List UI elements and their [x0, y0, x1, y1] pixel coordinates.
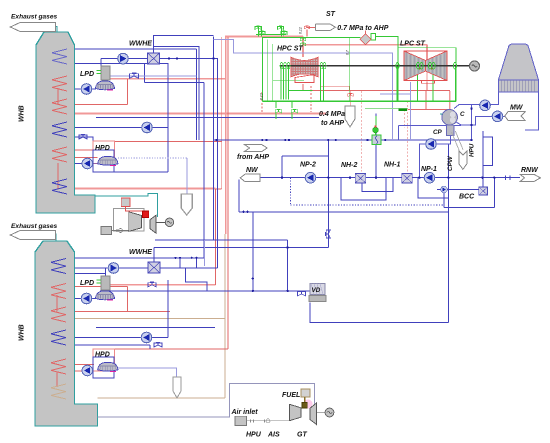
svg-text:WHB: WHB [19, 324, 26, 341]
svg-text:0.7 MPa to AHP: 0.7 MPa to AHP [337, 25, 388, 32]
svg-text:HPD: HPD [95, 145, 110, 152]
svg-text:BCC: BCC [459, 194, 475, 201]
svg-text:C: C [460, 111, 465, 118]
svg-text:Exhaust gases: Exhaust gases [11, 14, 58, 21]
svg-text:RNW: RNW [521, 167, 539, 174]
svg-text:NW: NW [246, 167, 259, 174]
svg-text:NH-2: NH-2 [341, 162, 357, 169]
svg-text:LPD: LPD [80, 280, 94, 287]
svg-text:HPU: HPU [469, 143, 476, 157]
svg-text:Exhaust gases: Exhaust gases [11, 223, 58, 230]
svg-text:NP-1: NP-1 [421, 166, 437, 173]
svg-text:HPU: HPU [246, 432, 262, 439]
svg-text:0,12: 0,12 [260, 93, 264, 100]
svg-text:LPC ST: LPC ST [400, 41, 426, 48]
svg-text:GT: GT [297, 432, 307, 439]
svg-text:ST: ST [326, 11, 336, 18]
svg-text:CP: CP [433, 129, 443, 136]
svg-text:HPD: HPD [95, 352, 110, 359]
svg-text:CPW: CPW [447, 155, 454, 171]
svg-text:Air inlet: Air inlet [231, 409, 259, 416]
svg-text:from AHP: from AHP [237, 154, 269, 161]
svg-text:WHB: WHB [19, 105, 26, 122]
svg-text:NP-2: NP-2 [300, 162, 316, 169]
svg-text:NH-1: NH-1 [384, 162, 400, 169]
svg-text:WWHE: WWHE [129, 249, 152, 256]
svg-text:LPD: LPD [80, 71, 94, 78]
svg-text:to AHP: to AHP [321, 120, 344, 127]
svg-text:MW: MW [510, 105, 524, 112]
svg-text:0.4 MPa: 0.4 MPa [319, 111, 345, 118]
svg-text:0,12: 0,12 [299, 27, 303, 34]
svg-text:HPC ST: HPC ST [277, 46, 303, 53]
svg-text:VD: VD [312, 287, 321, 294]
svg-text:WWHE: WWHE [129, 41, 152, 48]
svg-text:AIS: AIS [267, 432, 280, 439]
svg-text:FUEL: FUEL [282, 392, 300, 399]
